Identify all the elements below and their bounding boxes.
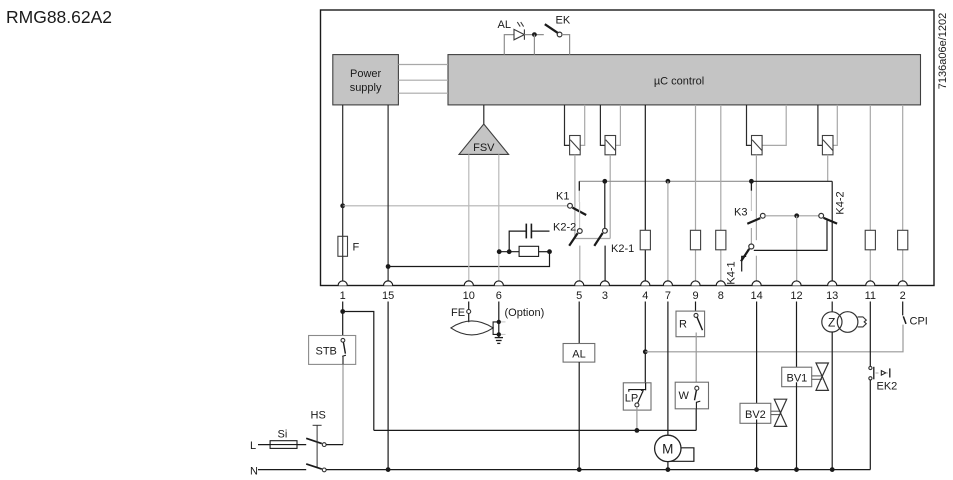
svg-text:BV2: BV2: [745, 409, 766, 421]
wire terminal 4 external: [644, 302, 646, 383]
pressure switch LP: [623, 383, 651, 410]
wire FSV leg to terminal 10: [468, 154, 470, 281]
svg-text:15: 15: [382, 290, 394, 302]
junction dot BV1 N: [794, 467, 799, 472]
svg-text:RMG88.62A2: RMG88.62A2: [6, 7, 112, 27]
main unit outline: [321, 10, 935, 286]
wire bus row: [374, 429, 696, 431]
wire terminal 15 external: [387, 302, 389, 470]
wire switched net black segment: [751, 180, 832, 182]
wires power supply to uC: [398, 65, 448, 94]
junction dot AL node: [532, 32, 537, 37]
terminal 13: [826, 281, 838, 302]
junction dot K2-1 net: [602, 179, 607, 184]
junction dot terminal 12: [794, 213, 799, 218]
wire K3 to K4-2: [765, 215, 819, 217]
HS coupling link: [313, 425, 322, 467]
svg-text:EK: EK: [556, 15, 571, 27]
wire K4-1 fixed contact stub: [742, 256, 747, 271]
switch CPI: [903, 316, 906, 324]
wire branch to bus: [343, 312, 374, 431]
resistor terminal 4 line: [640, 230, 650, 250]
terminal 14: [750, 281, 762, 302]
flame electrode FE: [451, 321, 493, 335]
svg-text:K1: K1: [556, 191, 569, 203]
wire R to W link: [695, 333, 697, 383]
junction dot snubber split: [507, 249, 512, 254]
svg-text:µC control: µC control: [654, 76, 704, 88]
pushbutton EK2: [869, 366, 897, 392]
relay coil K3 drive: [747, 105, 787, 155]
wire terminal 11 to EK2: [869, 302, 871, 367]
svg-text:12: 12: [790, 290, 802, 302]
junction dot K3 net: [749, 179, 754, 184]
lamp AL box: [563, 344, 595, 363]
terminal 4: [641, 281, 650, 302]
junction dot terminal 1 K1 feed: [340, 203, 345, 208]
ground electrode bracket: [493, 322, 499, 335]
wire terminal 11 column: [869, 105, 871, 281]
wire K1 fixed contact stub: [578, 181, 580, 202]
resistor snubber: [519, 246, 539, 256]
wire K4-2 fixed contact branch: [754, 220, 827, 250]
svg-text:M: M: [662, 442, 673, 457]
wire terminal 5 to AL: [578, 302, 580, 344]
svg-text:K4-2: K4-2: [835, 191, 847, 214]
svg-text:K3: K3: [734, 207, 747, 219]
wire snubber branch: [499, 251, 519, 253]
switch HS pole N: [306, 464, 326, 472]
wire LP drop: [636, 407, 638, 431]
junction dot snubber right: [547, 249, 552, 254]
wire K4-1 link: [750, 228, 752, 244]
svg-text:Z: Z: [828, 316, 835, 330]
switch K3: [747, 213, 765, 223]
terminal 7: [663, 281, 672, 302]
svg-text:8: 8: [718, 290, 724, 302]
svg-text:HS: HS: [311, 410, 326, 422]
fuse Si: [270, 441, 297, 449]
svg-text:FSV: FSV: [473, 142, 495, 154]
terminal 12: [790, 281, 802, 302]
switch EK: [545, 24, 562, 37]
terminal 10: [463, 281, 475, 302]
wire terminal 3 fixed contact: [604, 246, 606, 282]
svg-text:4: 4: [642, 290, 648, 302]
wire terminal 6 external: [498, 302, 500, 335]
switch K4-2: [819, 213, 837, 223]
wire terminal 2 column: [902, 105, 904, 281]
wire K1 feed from terminal 1: [343, 205, 568, 207]
motor M: [655, 435, 694, 461]
junction dot terminal 7 net: [666, 179, 671, 184]
svg-text:3: 3: [602, 290, 608, 302]
svg-text:LP: LP: [625, 393, 638, 405]
wire snubber return: [388, 252, 549, 267]
wire STB drop: [342, 364, 344, 444]
wire terminal 13 to Z: [831, 302, 833, 313]
wire terminal 14 to BV2: [756, 302, 758, 409]
junction dot motor N: [666, 467, 671, 472]
svg-text:7136a06e/1202: 7136a06e/1202: [937, 13, 949, 89]
junction dot bracket bottom: [497, 332, 501, 336]
wire K2-2 upper link: [579, 202, 581, 229]
wire EK right stub: [562, 35, 570, 55]
junction dot LP bus: [635, 428, 640, 433]
wire K3 fixed contact stub: [750, 181, 752, 211]
wire EK2 to N corner: [869, 380, 871, 470]
svg-text:STB: STB: [316, 346, 337, 358]
wire bracket stubs: [501, 322, 506, 335]
wire terminal 13 drop: [831, 181, 833, 281]
svg-text:L: L: [250, 440, 256, 452]
valve BV2: [740, 399, 787, 426]
junction dot terminal 4 sense: [643, 349, 648, 354]
terminal 9: [691, 281, 700, 302]
wire AL node stub down: [533, 35, 535, 55]
svg-text:K2-2: K2-2: [553, 222, 576, 234]
svg-text:Power: Power: [350, 68, 382, 80]
wire terminal 1 from power supply: [342, 105, 344, 236]
wire terminal 9 to R: [695, 302, 697, 312]
svg-text:AL: AL: [498, 19, 511, 31]
wire HS to STB drop: [326, 444, 343, 446]
wire terminal 12 drop: [796, 216, 798, 281]
svg-text:R: R: [679, 319, 687, 331]
svg-text:5: 5: [576, 290, 582, 302]
wire BV1 to N: [796, 382, 798, 469]
resistor terminal 11 line: [865, 230, 875, 250]
wire N row: [326, 469, 870, 471]
wire LED to EK: [524, 34, 543, 36]
junction dot N terminal 15: [386, 467, 391, 472]
wire AL to N: [578, 362, 580, 470]
junction dot snubber on terminal 6: [497, 249, 502, 254]
svg-text:13: 13: [826, 290, 838, 302]
svg-text:F: F: [353, 242, 360, 254]
svg-text:AL: AL: [572, 349, 585, 361]
junction dot BV2 N: [754, 467, 759, 472]
wire fuse to terminal 1: [342, 256, 344, 281]
svg-text:2: 2: [900, 290, 906, 302]
relay coil K1 drive: [565, 105, 585, 155]
switch K1: [568, 203, 587, 215]
wire FE electrode lead: [468, 314, 470, 323]
wire N row left: [258, 469, 306, 471]
wire coil K4 bottom: [827, 155, 829, 182]
terminal 6: [494, 281, 503, 302]
op-amp FSV flame signal amplifier: [459, 124, 509, 154]
resistor terminal 8 line: [716, 230, 726, 250]
junction dot terminal 15 snubber: [386, 264, 391, 269]
wire K2-1 link from net: [604, 181, 606, 228]
wire terminal 4 column: [644, 105, 646, 281]
svg-text:Si: Si: [278, 429, 288, 441]
wire terminal 14 lower: [755, 256, 757, 282]
junction dot terminal 1 branch: [340, 309, 345, 314]
svg-text:10: 10: [463, 290, 475, 302]
wire terminal 5 fixed contact: [579, 246, 581, 282]
ground: [495, 334, 503, 343]
svg-text:FE: FE: [451, 307, 465, 319]
wire AL/EK left stub: [504, 35, 514, 55]
terminal 1: [338, 281, 347, 302]
wire terminal 10 external: [468, 302, 470, 310]
relay coil K2 drive: [600, 105, 620, 155]
wire coil K1 bottom: [574, 155, 576, 239]
svg-text:(Option): (Option): [505, 307, 545, 319]
wire Z to N: [831, 332, 833, 470]
svg-text:9: 9: [692, 290, 698, 302]
svg-text:N: N: [250, 466, 258, 478]
switch K4-1: [741, 244, 754, 261]
wire terminal 7 from net: [667, 181, 669, 281]
resistor terminal 9 line: [690, 230, 700, 250]
thermostat STB: [309, 336, 356, 365]
junction dot AL N: [577, 467, 582, 472]
svg-text:supply: supply: [350, 82, 382, 94]
wire terminal 2 to CPI: [902, 302, 904, 316]
svg-text:W: W: [679, 390, 690, 402]
connector circle FE: [467, 310, 471, 314]
terminal 3: [600, 281, 609, 302]
FSV feed wire: [483, 105, 485, 125]
wire coil K3 bottom to terminal 14 upper: [755, 155, 757, 240]
valve BV1: [782, 363, 829, 390]
svg-text:K2-1: K2-1: [611, 243, 634, 255]
terminal 15: [382, 281, 394, 302]
LED AL: [514, 22, 524, 40]
wire terminal 9 column: [695, 105, 697, 281]
power supply box: [333, 55, 399, 105]
svg-text:11: 11: [865, 290, 876, 302]
junction dot Z N: [830, 467, 835, 472]
wire terminal 12 to BV1: [796, 302, 798, 373]
wire terminal 15 from power supply: [387, 105, 389, 281]
terminal 11: [865, 281, 876, 302]
terminal 5: [575, 281, 584, 302]
terminal 2: [898, 281, 907, 302]
wire terminal 8 column: [720, 105, 722, 281]
junction dot bracket top: [497, 320, 501, 324]
thermostat box W: [675, 382, 708, 409]
svg-text:1: 1: [340, 290, 346, 302]
relay box R: [676, 311, 705, 337]
svg-text:14: 14: [750, 290, 762, 302]
wire W to bus corner: [695, 409, 697, 431]
wire BV2 to N: [756, 420, 758, 470]
svg-text:K4-1: K4-1: [726, 261, 738, 284]
wire resistor to right node: [539, 251, 550, 253]
wire coil K1-K2 common bridge: [575, 238, 610, 240]
wire sense row to CPI: [645, 325, 903, 352]
svg-text:EK2: EK2: [877, 381, 898, 393]
fuse F: [338, 236, 348, 256]
wire L row: [258, 444, 306, 446]
svg-text:CPI: CPI: [910, 316, 928, 328]
resistor terminal 2 line: [898, 230, 908, 250]
wire switched net gray segment: [579, 180, 751, 182]
capacitor C plates: [526, 224, 531, 239]
switch K2-2: [569, 229, 582, 246]
svg-text:6: 6: [496, 290, 502, 302]
switch HS pole L: [306, 438, 326, 446]
wire coil K2 bottom: [609, 155, 611, 239]
uC control box: [448, 55, 921, 105]
wire FSV leg to terminal 6: [498, 154, 500, 281]
terminal 8: [716, 281, 725, 302]
relay coil K4 drive: [818, 105, 837, 155]
wire terminal 1 external: [342, 302, 344, 336]
capacitor snubber branch wires: [509, 231, 549, 252]
wire motor to N: [667, 462, 669, 470]
ignition transformer Z: [822, 312, 866, 333]
wire terminal 7 to motor: [667, 302, 669, 436]
switch K2-1: [594, 228, 607, 245]
svg-text:7: 7: [665, 290, 671, 302]
